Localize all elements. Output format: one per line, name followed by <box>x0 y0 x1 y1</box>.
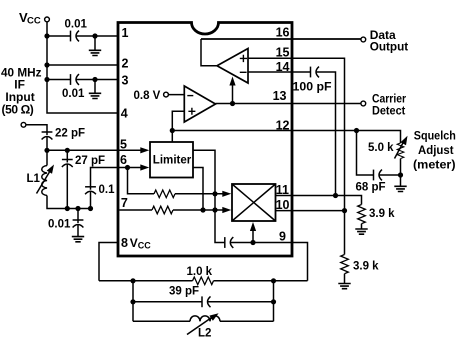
wire pin 6 external to 0.1 cap <box>91 168 119 190</box>
wire pin 1 right segment <box>76 35 118 37</box>
capacitor 68 pF <box>374 170 383 181</box>
capacitor 0.01 (pin 1 bypass) <box>71 31 80 42</box>
wire 100pF to right vertical down to pin 11 <box>316 72 336 196</box>
svg-text:Output: Output <box>370 40 409 54</box>
svg-text:9: 9 <box>279 229 286 243</box>
svg-text:Limiter: Limiter <box>153 154 192 166</box>
wire L1 bottom rail <box>47 196 91 209</box>
wire pin 13 line (comparator output) <box>216 103 361 105</box>
wire 1.0k rail left <box>99 280 193 282</box>
wire pin 16 line to data output <box>201 38 361 40</box>
svg-text:Adjust: Adjust <box>418 143 454 157</box>
wire left bottom vertical <box>132 281 134 322</box>
node: pin 6 internal tap <box>125 165 130 170</box>
wire internal lower to mixer <box>173 209 223 211</box>
svg-text:(meter): (meter) <box>413 157 456 171</box>
svg-text:100 pF: 100 pF <box>293 79 332 93</box>
capacitor 22 pF <box>42 132 53 140</box>
svg-text:39 pF: 39 pF <box>169 286 199 298</box>
capacitor 0.1 <box>85 187 96 195</box>
node: 68pF branch <box>354 128 359 133</box>
wire pin 12 line out to squelch pot <box>172 131 400 144</box>
comparator U1a triangle <box>217 49 248 84</box>
wire pin 14 line to 100pF <box>248 71 311 73</box>
wire pin 2 <box>47 64 118 66</box>
svg-text:L2: L2 <box>198 328 211 340</box>
capacitor 0.01 (bottom) <box>73 209 84 228</box>
resistor 1.0 k <box>193 277 214 285</box>
wire internal upper to mixer <box>175 193 223 195</box>
node: mixer bottom drive <box>250 240 255 245</box>
wire pin 6 internal into limiter <box>118 167 141 169</box>
svg-text:Detect: Detect <box>372 103 405 117</box>
capacitor 27 pF <box>62 160 73 168</box>
node: VCC / pin1 junction <box>44 33 49 38</box>
arrow into mixer (upper) <box>222 191 231 197</box>
svg-text:CC: CC <box>138 241 151 251</box>
wire 0.8V to comparator <box>168 94 184 96</box>
svg-text:13: 13 <box>273 89 287 103</box>
svg-text:10: 10 <box>276 198 290 212</box>
svg-text:8: 8 <box>121 236 128 250</box>
node: pin9 branch junction <box>212 207 217 212</box>
wire 39pF line left <box>133 301 203 303</box>
svg-text:L1: L1 <box>27 173 41 185</box>
svg-text:3: 3 <box>122 74 129 88</box>
potentiometer 5.0k squelch <box>395 134 411 175</box>
ground (0.01 bottom) <box>72 225 84 242</box>
svg-text:11: 11 <box>276 183 289 197</box>
node: left bottom junction <box>130 278 135 283</box>
wire comparator plus input to pin 12 line <box>172 111 184 130</box>
0.8V input terminal <box>164 92 169 97</box>
wire VCC vertical down to pin 4 line <box>47 22 118 113</box>
svg-text:1: 1 <box>122 26 129 40</box>
wire 68pF to pot bottom <box>379 174 401 176</box>
wire pin 3 left segment <box>47 79 71 81</box>
svg-text:5.0 k: 5.0 k <box>368 142 394 154</box>
capacitor 0.01 (pin 3 bypass) <box>71 74 80 85</box>
ground (3.9k upper) <box>355 224 367 235</box>
resistor internal upper <box>154 190 175 198</box>
node: 39pF right <box>271 299 276 304</box>
resistor 3.9k (lower) <box>341 255 349 274</box>
ground (3.9k lower) <box>338 274 350 289</box>
node: pin12/limiter tie <box>170 128 175 133</box>
arrow up into data comparator <box>229 77 235 104</box>
arrow into mixer (lower) <box>222 207 231 213</box>
wire 27pF top <box>66 150 68 162</box>
inductor L2 (variable) <box>133 311 274 335</box>
node: pin11 / 100pF vertical <box>333 193 338 198</box>
wire 22pF to pin5 node <box>46 137 48 151</box>
svg-text:0.8 V: 0.8 V <box>134 90 161 102</box>
arrow up into mixer bottom <box>250 222 256 243</box>
arrow into limiter (pin 6) <box>140 164 149 170</box>
svg-text:68 pF: 68 pF <box>356 182 386 194</box>
svg-text:0.01: 0.01 <box>65 19 88 31</box>
wire input to 22pF <box>26 125 47 135</box>
wire 1.0k rail right <box>214 280 308 282</box>
svg-text:V: V <box>130 236 138 250</box>
svg-text:7: 7 <box>121 196 128 210</box>
node: limiter lower output junction <box>200 207 205 212</box>
mixer block (X) <box>232 184 276 221</box>
wire pin 8 VCC down to 1.0k rail <box>99 243 118 281</box>
node: right bottom junction <box>271 278 276 283</box>
svg-text:5: 5 <box>120 137 127 151</box>
wire internal upper signal line (pin6 tap down and right) <box>128 168 155 194</box>
capacitor 100 pF <box>311 67 320 78</box>
label Carrier Detect <box>372 91 406 117</box>
label 40 MHz IF Input (50 ohm) <box>1 66 42 117</box>
resistor internal lower <box>152 206 173 214</box>
ground (pin 1 bypass) <box>89 36 101 56</box>
wire 0.1 bottom <box>90 191 92 208</box>
wire limiter lower output down <box>193 168 203 211</box>
svg-text:1.0 k: 1.0 k <box>187 266 213 278</box>
node: pin1/ground junction <box>92 33 97 38</box>
svg-text:3.9 k: 3.9 k <box>353 260 379 272</box>
svg-text:6: 6 <box>120 153 127 167</box>
svg-text:16: 16 <box>276 25 290 39</box>
wire pin12 tie into limiter top <box>171 131 173 143</box>
node: 0.1 bottom <box>88 206 93 211</box>
VCC terminal (top left) <box>45 17 50 22</box>
node: pot bottom junction <box>398 172 403 177</box>
ground (pot bottom) <box>394 175 406 192</box>
wire pin 15 line and right vertical to pin 10 <box>248 58 345 254</box>
label Data Output <box>370 28 409 54</box>
node: carrier detect / squelch arrow <box>230 101 235 106</box>
wire 39pF line right <box>208 301 274 303</box>
wire pin 11 line to 3.9k <box>276 196 362 205</box>
limiter block <box>150 142 193 178</box>
input terminal circle <box>21 122 26 127</box>
wire pin 1 left segment <box>47 35 71 37</box>
label Squelch Adjust (meter) <box>413 129 456 172</box>
node: limiter upper output junction <box>212 191 217 196</box>
VCC label <box>19 10 41 27</box>
node: 27pF tap <box>65 148 70 153</box>
comparator U1b (0.8V squelch) triangle <box>184 86 215 122</box>
node: VCC / pin3 junction <box>44 77 49 82</box>
data output terminal <box>361 37 366 42</box>
wire limiter upper output down to pin 9 line <box>193 150 225 242</box>
svg-text:15: 15 <box>276 45 290 59</box>
node: pin3/ground junction <box>92 77 97 82</box>
wire pin 5 into limiter <box>47 149 141 151</box>
capacitor 39 pF <box>202 296 211 307</box>
node: 0.01 top <box>75 206 80 211</box>
node: 39pF left <box>130 299 135 304</box>
wire 68pF branch <box>357 131 375 176</box>
resistor 3.9k (upper) <box>358 205 366 224</box>
node: 27pF bottom <box>65 206 70 211</box>
arrow into limiter (pin 5) <box>140 147 149 153</box>
wire pin 3 right segment <box>76 79 118 81</box>
wire pin 10 line <box>276 210 345 212</box>
node: VCC / pin2 junction <box>44 62 49 67</box>
ground (pin 3 bypass) <box>89 80 101 99</box>
comparator U1a (data) feedback wire <box>201 39 217 66</box>
node: pin 5 / L1 junction <box>44 148 49 153</box>
wire pin 9 line right and down to 1.0k rail <box>230 243 307 281</box>
pin number 8 with VCC label <box>121 236 151 251</box>
svg-text:2: 2 <box>122 57 129 71</box>
svg-text:22 pF: 22 pF <box>55 128 85 140</box>
wire 27pF bottom <box>66 164 68 209</box>
svg-text:3.9 k: 3.9 k <box>369 208 395 220</box>
carrier detect terminal <box>361 101 366 106</box>
wire right bottom vertical <box>273 281 275 322</box>
svg-text:27 pF: 27 pF <box>75 155 105 167</box>
svg-text:4: 4 <box>121 107 128 121</box>
wire pin 7 internal line <box>119 209 152 211</box>
IC U1 body outline with pin-1 notch <box>118 23 292 257</box>
inductor L1 (variable) <box>37 150 57 195</box>
capacitor (pin 9 coupling) <box>225 237 234 248</box>
svg-text:(50 Ω): (50 Ω) <box>2 102 34 116</box>
svg-text:CC: CC <box>27 16 41 27</box>
node: pin10 / pin15 vertical <box>342 208 347 213</box>
svg-text:0.01: 0.01 <box>62 88 85 100</box>
svg-text:0.01: 0.01 <box>48 219 71 231</box>
svg-text:Squelch: Squelch <box>414 129 456 143</box>
svg-text:0.1: 0.1 <box>99 184 116 196</box>
